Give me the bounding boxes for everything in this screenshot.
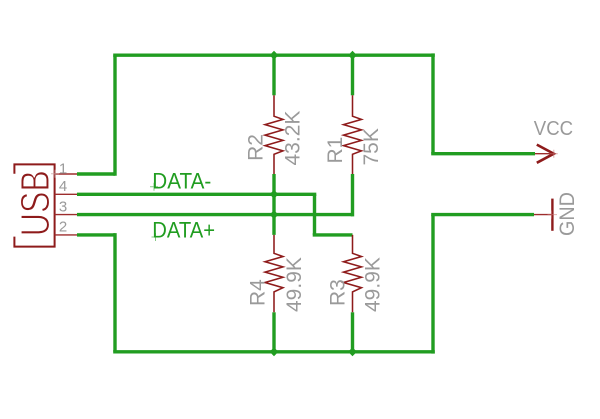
junction bottom rail R3 (348, 347, 357, 356)
svg-text:4: 4 (59, 178, 67, 195)
wire R3 bottom stub (351, 312, 354, 352)
svg-text:DATA+: DATA+ (152, 219, 215, 243)
wire R2-R4 link (272, 174, 275, 235)
resistor R4 body (265, 235, 283, 312)
svg-text:1: 1 (59, 160, 67, 177)
pin 4 (55, 193, 77, 195)
svg-text:R1: R1 (324, 137, 347, 164)
wire jog horizontal (313, 233, 353, 236)
wire left rail upper (113, 55, 116, 176)
pin 2 (55, 234, 77, 236)
supply VCC arrow (537, 145, 554, 163)
supply VCC tip cross (550, 150, 558, 158)
ground GND pin line (534, 214, 552, 216)
svg-text:75K: 75K (360, 128, 383, 165)
ground GND bar (551, 199, 553, 231)
wire jog vertical (313, 194, 316, 235)
resistor R1 body (344, 95, 362, 174)
wire DATA+ (77, 213, 353, 216)
resistor R3 body (344, 235, 362, 312)
label DATA+ origin cross (152, 233, 160, 241)
wire gnd feed (431, 213, 534, 216)
wire bottom rail (113, 350, 435, 353)
svg-text:43.2K: 43.2K (282, 111, 305, 166)
pin 1 (55, 173, 77, 175)
pin 3 (55, 214, 77, 216)
svg-text:R2: R2 (245, 134, 268, 161)
wire pin2 to left rail (77, 233, 115, 236)
wire DATA- (77, 193, 316, 196)
wire gnd riser (431, 215, 434, 354)
junction top rail R1 (348, 51, 357, 60)
wire pin1 to left rail (77, 172, 115, 175)
wire top rail (113, 54, 435, 57)
wire vcc feed (431, 152, 535, 155)
svg-text:USB: USB (13, 170, 58, 236)
svg-text:2: 2 (59, 219, 67, 236)
svg-text:R3: R3 (327, 279, 350, 306)
wire vcc drop (431, 53, 434, 153)
supply VCC pin line (535, 153, 554, 155)
junction top rail R2 (270, 51, 279, 60)
resistor R2 body (265, 95, 283, 174)
svg-text:R4: R4 (247, 279, 270, 306)
svg-text:DATA-: DATA- (152, 169, 211, 194)
svg-text:3: 3 (59, 198, 67, 215)
svg-text:GND: GND (555, 192, 579, 236)
junction DATA+ R2R4 (270, 210, 279, 219)
wire left rail lower (113, 233, 116, 352)
svg-text:VCC: VCC (534, 118, 573, 140)
connector origin cross (51, 170, 59, 178)
ground GND cross (548, 211, 558, 219)
junction DATA- R2 (270, 190, 279, 199)
svg-text:49.9K: 49.9K (362, 257, 385, 312)
label DATA- origin cross (150, 183, 158, 191)
wire R1 top stub (351, 53, 354, 95)
svg-text:49.9K: 49.9K (283, 257, 306, 312)
wire R4 bottom stub (272, 312, 275, 352)
connector USB box (14, 164, 54, 246)
junction bottom rail R4 (270, 347, 279, 356)
wire R2 top stub (272, 53, 275, 95)
wire R1 bottom stub (351, 174, 354, 216)
